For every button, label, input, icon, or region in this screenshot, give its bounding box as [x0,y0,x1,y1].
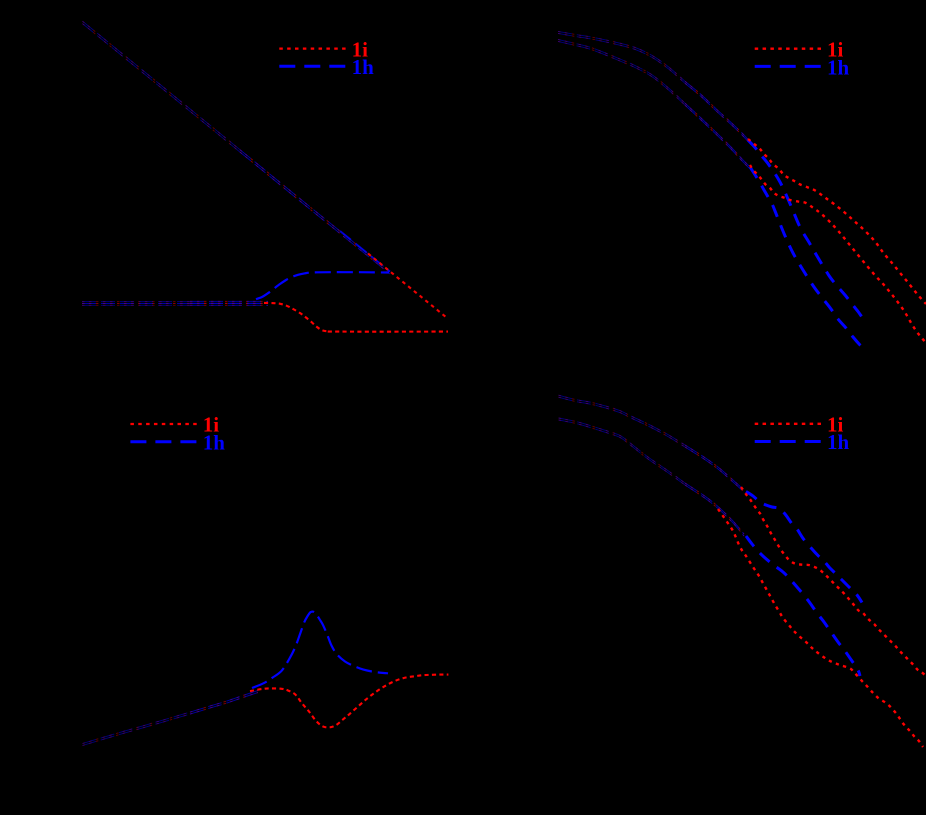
BL rising band (near) row2 red dotted (1i) [190,693,258,715]
BR blue curve 2 (1h) [746,536,860,676]
TR upper band (near) row2 blue dashed (1h) [685,83,751,145]
TL diagonal band (near) row2 blue dashed (1h) [240,152,390,274]
TL flat band A (far) row1 red dotted (1i) [82,300,190,302]
BR upper band (far) row2 blue dashed (1h) [559,397,686,447]
BL rising band (near) row1 blue dashed (1h) [190,691,258,713]
TL diagonal band (near) row2 red dotted (1i) [240,152,390,274]
legend TL red sample [279,47,345,49]
TL flat band B (near) row1 red dotted (1i) [190,302,268,304]
BR lower band (near) row1 blue dashed (1h) [685,483,744,534]
TL flat band B (far) row1 red dotted (1i) [82,302,190,304]
TR red curve 1 (1i) [748,139,926,304]
BR lower band (far) row1 blue dashed (1h) [559,418,685,483]
legend BR red sample [755,423,821,425]
svg-text:1h: 1h [352,55,375,79]
BR upper band (near) row1 blue dashed (1h) [685,445,744,490]
TR upper band (far) row1 red dotted (1i) [558,31,685,81]
TR upper band (far) row2 blue dashed (1h) [558,33,685,83]
TR lower band (near) row2 red dotted (1i) [685,105,749,168]
BR lower band (near) row2 red dotted (1i) [685,485,744,536]
TR lower band (far) row2 blue dashed (1h) [558,41,685,105]
BL red resonance dip (1i) [250,675,448,728]
TR blue curve 1 (1h) [748,140,862,316]
TR upper band (far) row2 red dotted (1i) [558,33,685,83]
TL flat band B (far) row1 blue dashed (1h) [82,302,190,304]
TL diagonal band (far) row2 red dotted (1i) [83,24,241,153]
legend TR red sample [755,48,821,50]
BR lower band (near) row1 red dotted (1i) [685,483,744,534]
TL diagonal band (near) row1 red dotted (1i) [240,150,390,272]
TL flat band B (far) row2 red dotted (1i) [82,304,190,306]
BR blue curve 1 (1h) [746,492,862,603]
BL rising band (far) row1 red dotted (1i) [83,712,191,743]
BL blue resonance peak (1h) [252,612,388,688]
BL rising band (far) row1 blue dashed (1h) [83,712,191,743]
TL flat band A (far) row2 blue dashed (1h) [82,302,190,304]
BL rising band (near) row2 blue dashed (1h) [190,693,258,715]
TR lower band (far) row1 red dotted (1i) [558,39,685,103]
svg-text:1h: 1h [827,430,850,454]
BR lower band (far) row2 blue dashed (1h) [559,420,685,485]
TL blue step curve (1h) [256,272,389,299]
TR lower band (far) row2 red dotted (1i) [558,41,685,105]
TL diagonal band (far) row1 blue dashed (1h) [83,21,241,150]
TL flat band B (far) row2 blue dashed (1h) [82,304,190,306]
TR lower band (near) row2 blue dashed (1h) [685,105,749,168]
TL flat band A (near) row2 blue dashed (1h) [190,302,268,304]
BL rising band (far) row2 blue dashed (1h) [83,714,191,745]
TL flat band B (near) row2 red dotted (1i) [190,304,268,306]
BR upper band (far) row1 red dotted (1i) [559,395,686,445]
TR upper band (far) row1 blue dashed (1h) [558,31,685,81]
svg-text:1h: 1h [827,55,850,79]
TR upper band (near) row1 red dotted (1i) [685,81,751,143]
TR lower band (near) row1 blue dashed (1h) [685,103,749,166]
TR red curve 2 (1i) [750,165,926,343]
BR lower band (far) row1 red dotted (1i) [559,418,685,483]
TL flat band A (far) row2 red dotted (1i) [82,302,190,304]
TL diagonal band (far) row1 red dotted (1i) [83,21,241,150]
TL flat band A (near) row1 blue dashed (1h) [190,300,268,302]
BR lower band (far) row2 red dotted (1i) [559,420,685,485]
BR upper band (near) row2 red dotted (1i) [685,447,744,492]
legend BR blue sample [755,440,821,443]
TR upper band (near) row1 blue dashed (1h) [685,81,751,143]
legend BL blue sample [130,440,196,443]
BL rising band (far) row2 red dotted (1i) [83,714,191,745]
BR red curve 2 (1i) [718,509,923,747]
TL diagonal red bright tail (1i) [368,254,448,319]
BR upper band (near) row1 red dotted (1i) [685,445,744,490]
legend TR blue sample [755,65,821,68]
legend TL blue sample [279,65,345,68]
BR upper band (near) row2 blue dashed (1h) [685,447,744,492]
TL flat band A (near) row1 red dotted (1i) [190,300,268,302]
TL diagonal blue bright tail (1h) [340,231,390,272]
TL flat band A (far) row1 blue dashed (1h) [82,300,190,302]
BL rising band (near) row1 red dotted (1i) [190,691,258,713]
TL flat band B (near) row1 blue dashed (1h) [190,302,268,304]
BR lower band (near) row2 blue dashed (1h) [685,485,744,536]
TR lower band (near) row1 red dotted (1i) [685,103,749,166]
TR blue curve 2 (1h) [750,167,864,349]
BR red curve 1 (1i) [741,487,926,676]
BR upper band (far) row2 red dotted (1i) [559,397,686,447]
TL red step curve (1i) [264,303,448,332]
TL flat band B (near) row2 blue dashed (1h) [190,304,268,306]
svg-text:1h: 1h [203,430,226,454]
legend BL red sample [130,423,196,425]
TL diagonal band (near) row1 blue dashed (1h) [240,150,390,272]
TL flat band A (near) row2 red dotted (1i) [190,302,268,304]
BR upper band (far) row1 blue dashed (1h) [559,395,686,445]
TR upper band (near) row2 red dotted (1i) [685,83,751,145]
TR lower band (far) row1 blue dashed (1h) [558,39,685,103]
TL diagonal band (far) row2 blue dashed (1h) [83,24,241,153]
